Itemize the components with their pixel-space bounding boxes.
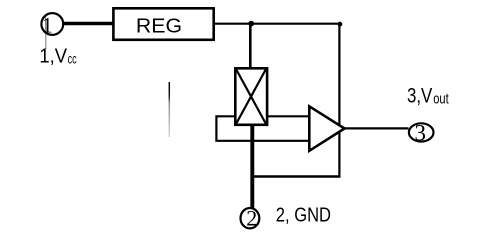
op-amp A1 (comparator triangle) xyxy=(309,106,344,151)
svg-text:2, GND: 2, GND xyxy=(276,205,331,227)
wire Hall right terminal to upper amp input xyxy=(267,115,309,117)
wire REG to top-right corner xyxy=(215,23,341,25)
svg-text:REG: REG xyxy=(136,15,182,37)
svg-text:out: out xyxy=(433,91,449,107)
svg-text:3: 3 xyxy=(415,120,427,145)
leader line from pin 1 circle to Vcc label xyxy=(45,17,47,50)
label 3,Vout xyxy=(407,84,449,108)
wire feedback bottom to GND line xyxy=(251,175,341,177)
label 1,Vcc xyxy=(39,46,76,68)
svg-text:2: 2 xyxy=(246,206,257,231)
Hall element X1 (crossed square) xyxy=(235,68,267,125)
corner dot top right xyxy=(338,22,343,27)
wire junction down to Hall element xyxy=(249,24,252,68)
pin circle 3 xyxy=(409,123,434,141)
pin circle 1 xyxy=(41,13,63,35)
junction dot on Vcc rail xyxy=(248,21,254,27)
wire Hall left terminal wrap to lower amp input xyxy=(216,116,309,141)
svg-text:1,V: 1,V xyxy=(39,46,67,68)
wire amp output to pin 3 xyxy=(344,127,409,129)
regulator block REG xyxy=(113,8,213,40)
wire pin1 to REG xyxy=(63,22,114,26)
wire GND from Hall element down to pin 2 xyxy=(250,125,254,208)
svg-text:3,V: 3,V xyxy=(407,84,433,108)
scan artifact vertical mark xyxy=(168,82,170,137)
wire Vcc rail down to amp supply xyxy=(338,24,340,177)
svg-text:cc: cc xyxy=(68,50,77,66)
svg-text:1: 1 xyxy=(42,12,53,37)
pin circle 2 xyxy=(241,208,260,228)
